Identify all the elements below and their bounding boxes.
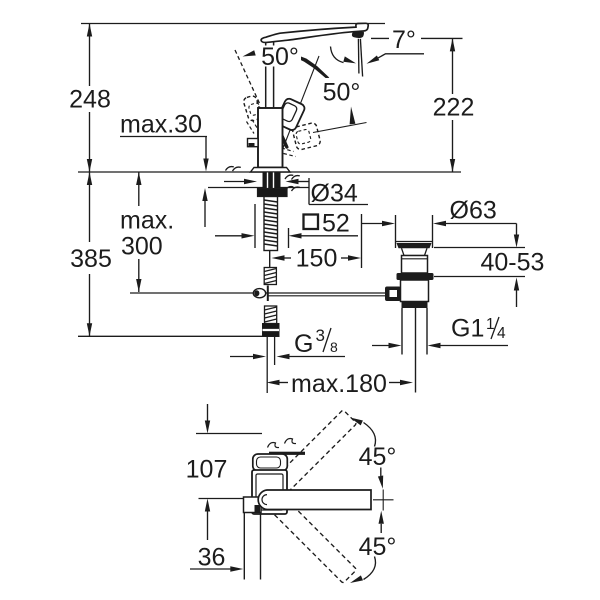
- svg-text:107: 107: [186, 456, 228, 484]
- svg-text:40-53: 40-53: [481, 249, 545, 277]
- svg-text:4: 4: [497, 325, 506, 342]
- svg-text:248: 248: [69, 86, 111, 114]
- dim Ø34: [224, 181, 244, 183]
- dim G1 1/4: [372, 345, 389, 347]
- svg-text:max.180: max.180: [291, 370, 387, 398]
- dashed handle pos 2 (lower right): [292, 122, 321, 150]
- deck break marks: [226, 167, 300, 192]
- mounting nut: [258, 189, 288, 197]
- G1 1/4 fraction: [486, 316, 506, 342]
- ref line top: [196, 433, 262, 435]
- 385 bottom reference line: [78, 335, 265, 337]
- svg-text:300: 300: [121, 233, 163, 261]
- dim 45 top: [364, 423, 376, 447]
- dim square52: [215, 235, 242, 237]
- 50deg #1 annotation: [235, 50, 261, 106]
- dim 248: [89, 24, 91, 87]
- svg-text:385: 385: [70, 245, 112, 273]
- neck: [402, 248, 428, 255]
- 7deg annotation: [371, 37, 389, 39]
- supply pipe: [266, 337, 268, 366]
- lower body: [401, 280, 429, 302]
- svg-text:G1: G1: [451, 315, 484, 343]
- svg-text:50°: 50°: [323, 79, 361, 107]
- dashed swivel positions: [272, 410, 356, 494]
- dim 36: [190, 568, 231, 570]
- bottom nut: [402, 302, 428, 309]
- hose segment 1: [264, 268, 276, 285]
- pivot ball: [267, 286, 269, 302]
- svg-text:8: 8: [330, 339, 338, 355]
- svg-text:36: 36: [198, 544, 226, 572]
- shank behind deck: [263, 173, 281, 189]
- pop-up rod line: [130, 292, 387, 294]
- top reference line: [81, 23, 385, 25]
- plan spout bar: [258, 490, 371, 510]
- svg-text:45°: 45°: [359, 443, 397, 471]
- tailpipe: [401, 308, 403, 355]
- body: [258, 108, 283, 168]
- svg-text:7°: 7°: [392, 26, 416, 54]
- dim max300: [138, 172, 140, 206]
- deck line: [78, 171, 461, 173]
- G3/8 connector: [263, 324, 280, 337]
- dim max30: [120, 136, 207, 138]
- svg-text:150: 150: [296, 245, 338, 273]
- spout: [261, 23, 368, 42]
- dim 150: [272, 255, 285, 260]
- dim 40-53: [434, 247, 525, 249]
- plan body: [252, 470, 287, 514]
- dim 385: [89, 172, 91, 242]
- dim 107: [207, 404, 209, 421]
- connector + pipe down: [244, 497, 262, 513]
- left nub: [248, 139, 259, 147]
- dim G3/8: [230, 356, 253, 358]
- flange: [251, 168, 291, 173]
- rod between shank and hose: [269, 251, 271, 268]
- dim Ø63: [362, 223, 383, 225]
- svg-text:G: G: [294, 330, 313, 358]
- centre cross at bar end: [373, 499, 394, 501]
- G 3/8 fraction: [316, 326, 325, 345]
- upper body: [402, 256, 428, 274]
- break squiggles on lever: [268, 443, 280, 448]
- dashed handle pos 1 (left): [243, 95, 263, 122]
- svg-text:max.: max.: [120, 207, 174, 235]
- threaded shank: [264, 197, 278, 251]
- svg-text:3: 3: [316, 326, 325, 345]
- seal band: [397, 273, 434, 280]
- handle solid paddle: [275, 97, 306, 131]
- svg-text:52: 52: [322, 210, 350, 238]
- hose segment 2: [265, 306, 277, 324]
- dim max180: [267, 380, 280, 385]
- svg-text:222: 222: [433, 94, 475, 122]
- square symbol of 52: [304, 215, 319, 230]
- svg-text:50°: 50°: [261, 43, 299, 71]
- svg-text:1: 1: [486, 316, 495, 333]
- flange: [396, 241, 433, 243]
- svg-text:Ø63: Ø63: [450, 197, 497, 225]
- 50deg #2 leader & handle axis: [282, 56, 319, 150]
- svg-text:max.30: max.30: [120, 111, 202, 139]
- text background patches: [259, 46, 301, 67]
- plan handle paddle: [253, 454, 287, 471]
- dim 45 bottom: [379, 511, 384, 524]
- ref line mid: [199, 498, 244, 500]
- svg-text:Ø34: Ø34: [311, 180, 358, 208]
- lever housing: [385, 287, 401, 302]
- neck: [265, 41, 267, 109]
- plan handle lever bar: [269, 452, 305, 455]
- dim 222: [421, 37, 463, 39]
- deck bottom line: [208, 187, 309, 189]
- svg-text:45°: 45°: [359, 533, 397, 561]
